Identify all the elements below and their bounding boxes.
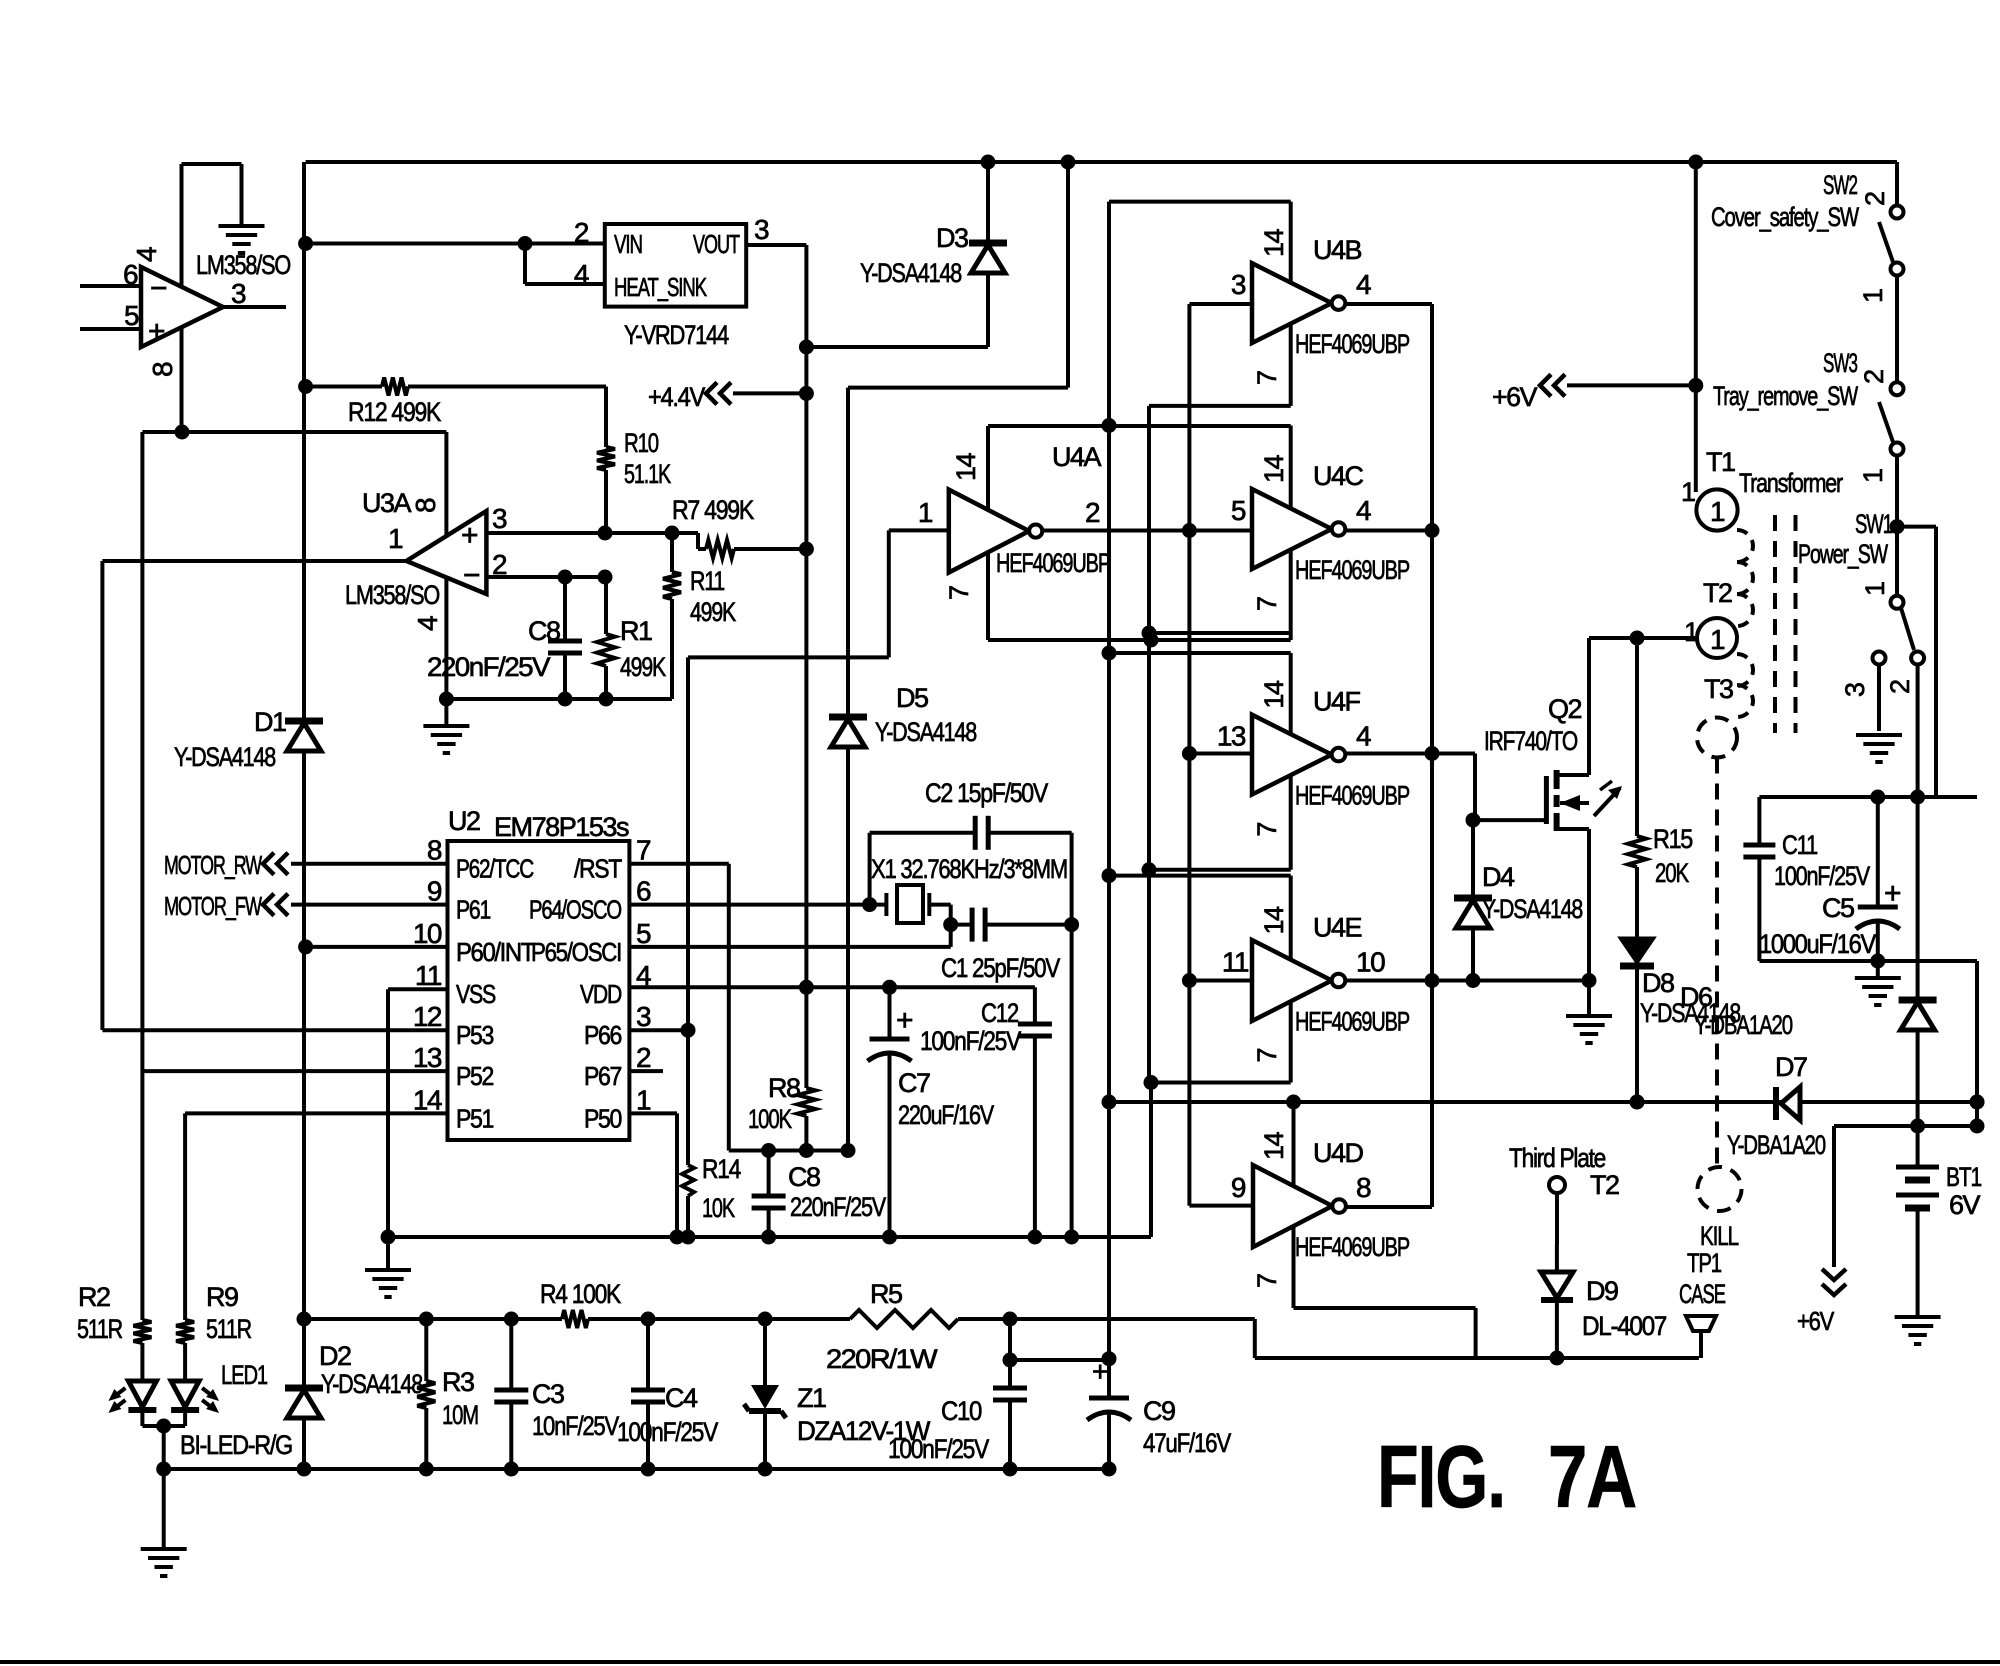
svg-text:7: 7 <box>636 835 651 866</box>
svg-text:100nF/25V: 100nF/25V <box>888 1434 989 1464</box>
svg-text:20K: 20K <box>1655 858 1689 888</box>
svg-text:−: − <box>150 272 167 305</box>
svg-text:D8: D8 <box>1642 968 1674 998</box>
svg-text:U4D: U4D <box>1313 1138 1364 1168</box>
svg-text:C2 15pF/50V: C2 15pF/50V <box>925 778 1048 808</box>
svg-text:100K: 100K <box>748 1104 792 1134</box>
svg-text:U2: U2 <box>448 806 480 836</box>
svg-text:BI-LED-R/G: BI-LED-R/G <box>180 1430 292 1460</box>
svg-text:Q2: Q2 <box>1548 694 1582 724</box>
svg-text:EM78P153s: EM78P153s <box>494 812 629 842</box>
svg-text:1: 1 <box>636 1084 651 1115</box>
svg-text:1: 1 <box>1684 617 1698 647</box>
svg-text:D7: D7 <box>1775 1052 1807 1082</box>
svg-text:11: 11 <box>1222 947 1249 978</box>
svg-text:Tray_remove_SW: Tray_remove_SW <box>1713 381 1858 411</box>
svg-text:D9: D9 <box>1586 1276 1618 1306</box>
svg-text:R5: R5 <box>870 1279 902 1309</box>
svg-text:T2: T2 <box>1590 1170 1619 1200</box>
svg-text:3: 3 <box>1840 683 1870 697</box>
svg-text:14: 14 <box>1259 1131 1289 1160</box>
svg-text:D2: D2 <box>319 1341 351 1371</box>
svg-text:7: 7 <box>1252 371 1282 385</box>
svg-text:P50: P50 <box>584 1103 622 1133</box>
svg-text:220uF/16V: 220uF/16V <box>898 1100 994 1130</box>
svg-text:R1: R1 <box>620 616 652 646</box>
svg-text:SW2: SW2 <box>1823 170 1857 200</box>
svg-text:5: 5 <box>124 300 139 331</box>
svg-text:1: 1 <box>918 497 933 528</box>
svg-text:C8: C8 <box>528 616 560 646</box>
svg-text:4: 4 <box>1356 721 1371 752</box>
svg-text:7A: 7A <box>1548 1427 1636 1526</box>
svg-text:P66: P66 <box>584 1020 622 1050</box>
svg-text:12: 12 <box>413 1001 442 1032</box>
svg-text:4: 4 <box>1356 495 1371 526</box>
svg-text:7: 7 <box>1252 823 1282 837</box>
svg-text:3: 3 <box>492 503 507 534</box>
svg-text:C12: C12 <box>981 998 1018 1028</box>
svg-text:1: 1 <box>1710 624 1725 655</box>
svg-text:Third Plate: Third Plate <box>1509 1143 1605 1173</box>
svg-text:−: − <box>463 559 480 592</box>
svg-text:7: 7 <box>944 586 974 600</box>
svg-text:HEF4069UBP: HEF4069UBP <box>1295 1007 1409 1037</box>
svg-text:C5: C5 <box>1822 893 1854 923</box>
svg-text:R7 499K: R7 499K <box>672 495 754 525</box>
svg-text:R15: R15 <box>1653 824 1692 854</box>
svg-text:C11: C11 <box>1782 830 1817 860</box>
svg-text:9: 9 <box>1231 1172 1246 1203</box>
svg-text:+: + <box>148 315 165 348</box>
svg-text:R11: R11 <box>690 566 724 596</box>
svg-text:U4A: U4A <box>1052 442 1102 472</box>
svg-text:7: 7 <box>1252 1274 1282 1288</box>
svg-text:2: 2 <box>1859 370 1889 384</box>
svg-text:Z1: Z1 <box>797 1383 826 1413</box>
svg-text:2: 2 <box>636 1042 651 1073</box>
svg-text:7: 7 <box>1252 597 1282 611</box>
svg-text:SW3: SW3 <box>1823 348 1857 378</box>
svg-text:C3: C3 <box>532 1379 564 1409</box>
svg-text:R8: R8 <box>768 1073 800 1103</box>
svg-text:14: 14 <box>413 1084 442 1115</box>
svg-text:14: 14 <box>1259 228 1289 257</box>
svg-text:1: 1 <box>1858 469 1888 483</box>
svg-text:DL-4007: DL-4007 <box>1582 1311 1666 1341</box>
svg-text:4: 4 <box>574 259 589 290</box>
svg-text:D1: D1 <box>254 707 286 737</box>
svg-text:P53: P53 <box>456 1020 494 1050</box>
svg-text:499K: 499K <box>690 597 736 627</box>
svg-text:HEF4069UBP: HEF4069UBP <box>1295 781 1409 811</box>
svg-text:3: 3 <box>636 1001 651 1032</box>
svg-text:14: 14 <box>951 452 981 481</box>
svg-text:VDD: VDD <box>580 979 622 1009</box>
svg-text:X1 32.768KHz/3*8MM: X1 32.768KHz/3*8MM <box>871 854 1067 884</box>
svg-text:220nF/25V: 220nF/25V <box>427 652 551 682</box>
svg-text:D5: D5 <box>896 683 928 713</box>
svg-text:Y-DBA1A20: Y-DBA1A20 <box>1727 1130 1825 1160</box>
svg-text:KILL: KILL <box>1700 1221 1739 1251</box>
svg-text:Y-DSA4148: Y-DSA4148 <box>1482 894 1582 924</box>
svg-text:3: 3 <box>231 278 246 309</box>
svg-text:1000uF/16V: 1000uF/16V <box>1759 929 1876 959</box>
svg-text:R9: R9 <box>206 1282 238 1312</box>
svg-text:LM358/SO: LM358/SO <box>196 250 290 280</box>
svg-text:5: 5 <box>636 918 651 949</box>
svg-text:LM358/SO: LM358/SO <box>345 580 439 610</box>
svg-text:C9: C9 <box>1143 1396 1175 1426</box>
svg-text:D3: D3 <box>936 223 968 253</box>
svg-text:+: + <box>1092 1356 1107 1387</box>
svg-text:MOTOR_RW: MOTOR_RW <box>164 850 262 880</box>
svg-text:U4F: U4F <box>1313 687 1361 717</box>
svg-text:VOUT: VOUT <box>693 229 740 259</box>
svg-text:100nF/25V: 100nF/25V <box>1774 861 1870 891</box>
svg-text:Transformer: Transformer <box>1739 468 1843 498</box>
svg-text:499K: 499K <box>620 652 666 682</box>
svg-text:P67: P67 <box>584 1061 622 1091</box>
svg-text:6: 6 <box>123 259 138 290</box>
svg-text:MOTOR_FW: MOTOR_FW <box>164 891 262 921</box>
svg-text:D4: D4 <box>1482 862 1515 892</box>
svg-text:3: 3 <box>754 214 769 245</box>
svg-text:/RST: /RST <box>574 854 622 884</box>
svg-text:14: 14 <box>1259 454 1289 483</box>
svg-text:T3: T3 <box>1704 674 1733 704</box>
svg-text:T1: T1 <box>1706 447 1735 477</box>
svg-text:HEAT_SINK: HEAT_SINK <box>614 272 708 302</box>
svg-text:220R/1W: 220R/1W <box>826 1344 938 1374</box>
svg-text:1: 1 <box>1710 496 1725 527</box>
svg-text:4: 4 <box>131 247 162 262</box>
svg-text:1: 1 <box>1860 582 1890 596</box>
svg-text:1: 1 <box>388 523 403 554</box>
svg-text:C7: C7 <box>898 1068 930 1098</box>
svg-text:Y-DSA4148: Y-DSA4148 <box>860 258 961 288</box>
svg-text:FIG.: FIG. <box>1377 1427 1505 1526</box>
svg-text:+: + <box>461 519 478 552</box>
svg-text:Y-DBA1A20: Y-DBA1A20 <box>1694 1010 1792 1040</box>
svg-text:10: 10 <box>413 918 442 949</box>
svg-text:8: 8 <box>427 835 442 866</box>
svg-text:4: 4 <box>412 616 443 631</box>
svg-text:7: 7 <box>1252 1049 1282 1063</box>
svg-text:R14: R14 <box>702 1154 741 1184</box>
svg-text:U4C: U4C <box>1313 461 1364 491</box>
svg-text:IRF740/TO: IRF740/TO <box>1484 726 1577 756</box>
svg-text:10: 10 <box>1356 947 1385 978</box>
svg-text:13: 13 <box>1217 721 1246 752</box>
svg-text:8: 8 <box>410 498 441 513</box>
svg-text:R2: R2 <box>78 1282 110 1312</box>
svg-text:3: 3 <box>1231 269 1246 300</box>
svg-text:4: 4 <box>1356 269 1371 300</box>
svg-text:+: + <box>896 1004 913 1037</box>
svg-text:C4: C4 <box>665 1383 698 1413</box>
svg-text:10K: 10K <box>702 1193 735 1223</box>
svg-text:P61: P61 <box>456 895 491 925</box>
svg-text:R3: R3 <box>442 1367 474 1397</box>
svg-text:Y-DSA4148: Y-DSA4148 <box>875 717 976 747</box>
svg-text:HEF4069UBP: HEF4069UBP <box>1295 1232 1409 1262</box>
svg-text:10nF/25V: 10nF/25V <box>532 1411 619 1441</box>
svg-text:51.1K: 51.1K <box>624 459 671 489</box>
svg-text:R4 100K: R4 100K <box>540 1279 621 1309</box>
svg-text:T2: T2 <box>1703 578 1732 608</box>
svg-text:R12 499K: R12 499K <box>348 397 441 427</box>
svg-text:LED1: LED1 <box>221 1360 267 1390</box>
svg-text:9: 9 <box>427 876 442 907</box>
svg-text:P51: P51 <box>456 1103 494 1133</box>
svg-text:5: 5 <box>1231 495 1246 526</box>
svg-text:6V: 6V <box>1949 1190 1981 1220</box>
svg-text:BT1: BT1 <box>1946 1162 1981 1192</box>
svg-text:HEF4069UBP: HEF4069UBP <box>1295 329 1409 359</box>
svg-text:2: 2 <box>1085 497 1100 528</box>
svg-text:R10: R10 <box>624 428 658 458</box>
svg-text:VIN: VIN <box>614 229 642 259</box>
svg-text:2: 2 <box>574 217 589 248</box>
svg-text:D6: D6 <box>1680 982 1712 1012</box>
svg-text:U4B: U4B <box>1313 235 1362 265</box>
svg-text:13: 13 <box>413 1042 442 1073</box>
svg-text:Y-DSA4148: Y-DSA4148 <box>321 1369 422 1399</box>
svg-text:P64/OSCO: P64/OSCO <box>529 895 621 925</box>
svg-text:P62/TCC: P62/TCC <box>456 854 534 884</box>
svg-text:2: 2 <box>1860 192 1890 206</box>
svg-text:11: 11 <box>415 960 442 991</box>
svg-text:47uF/16V: 47uF/16V <box>1143 1428 1231 1458</box>
svg-text:HEF4069UBP: HEF4069UBP <box>996 548 1110 578</box>
svg-text:+6V: +6V <box>1492 382 1537 412</box>
svg-text:100nF/25V: 100nF/25V <box>617 1417 718 1447</box>
svg-text:14: 14 <box>1259 906 1289 935</box>
svg-text:CASE: CASE <box>1679 1279 1725 1309</box>
svg-text:6: 6 <box>636 876 651 907</box>
svg-text:VSS: VSS <box>456 979 496 1009</box>
svg-text:Y-VRD7144: Y-VRD7144 <box>624 320 729 350</box>
svg-text:+6V: +6V <box>1797 1306 1835 1336</box>
svg-text:10M: 10M <box>442 1400 478 1430</box>
svg-text:8: 8 <box>147 362 178 377</box>
svg-text:100nF/25V: 100nF/25V <box>920 1026 1021 1056</box>
svg-text:1: 1 <box>1681 477 1695 507</box>
svg-text:1: 1 <box>1858 289 1888 303</box>
svg-text:SW1: SW1 <box>1855 509 1892 539</box>
svg-text:HEF4069UBP: HEF4069UBP <box>1295 555 1409 585</box>
svg-text:Power_SW: Power_SW <box>1798 539 1888 569</box>
svg-text:P60/INT: P60/INT <box>456 937 535 967</box>
svg-text:Y-DSA4148: Y-DSA4148 <box>174 742 275 772</box>
svg-text:511R: 511R <box>77 1314 123 1344</box>
svg-text:+4.4V: +4.4V <box>648 382 705 412</box>
svg-text:U4E: U4E <box>1313 913 1362 943</box>
svg-text:U3A: U3A <box>362 488 412 518</box>
svg-text:511R: 511R <box>206 1314 252 1344</box>
svg-text:8: 8 <box>1356 1172 1371 1203</box>
svg-text:P65/OSCI: P65/OSCI <box>531 937 621 967</box>
svg-text:Cover_safety_SW: Cover_safety_SW <box>1711 202 1860 232</box>
svg-text:C1 25pF/50V: C1 25pF/50V <box>941 953 1060 983</box>
svg-text:14: 14 <box>1259 680 1289 709</box>
svg-text:C10: C10 <box>941 1396 981 1426</box>
svg-text:P52: P52 <box>456 1061 494 1091</box>
svg-text:220nF/25V: 220nF/25V <box>790 1192 886 1222</box>
svg-text:TP1: TP1 <box>1687 1248 1721 1278</box>
svg-text:2: 2 <box>1885 680 1915 694</box>
svg-text:C8: C8 <box>788 1162 820 1192</box>
